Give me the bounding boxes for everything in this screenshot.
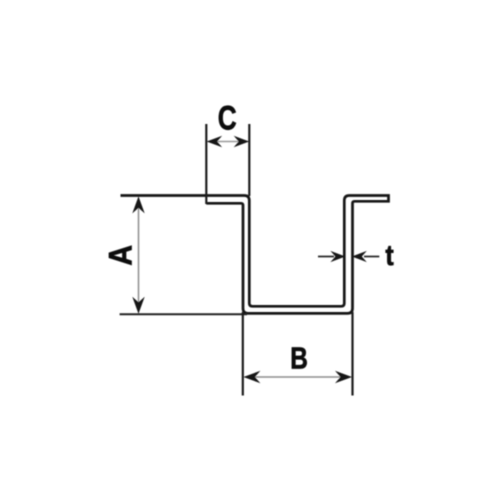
svg-text:B: B <box>290 341 308 375</box>
svg-text:C: C <box>218 99 237 137</box>
svg-text:t: t <box>385 240 393 272</box>
svg-text:A: A <box>103 245 139 266</box>
